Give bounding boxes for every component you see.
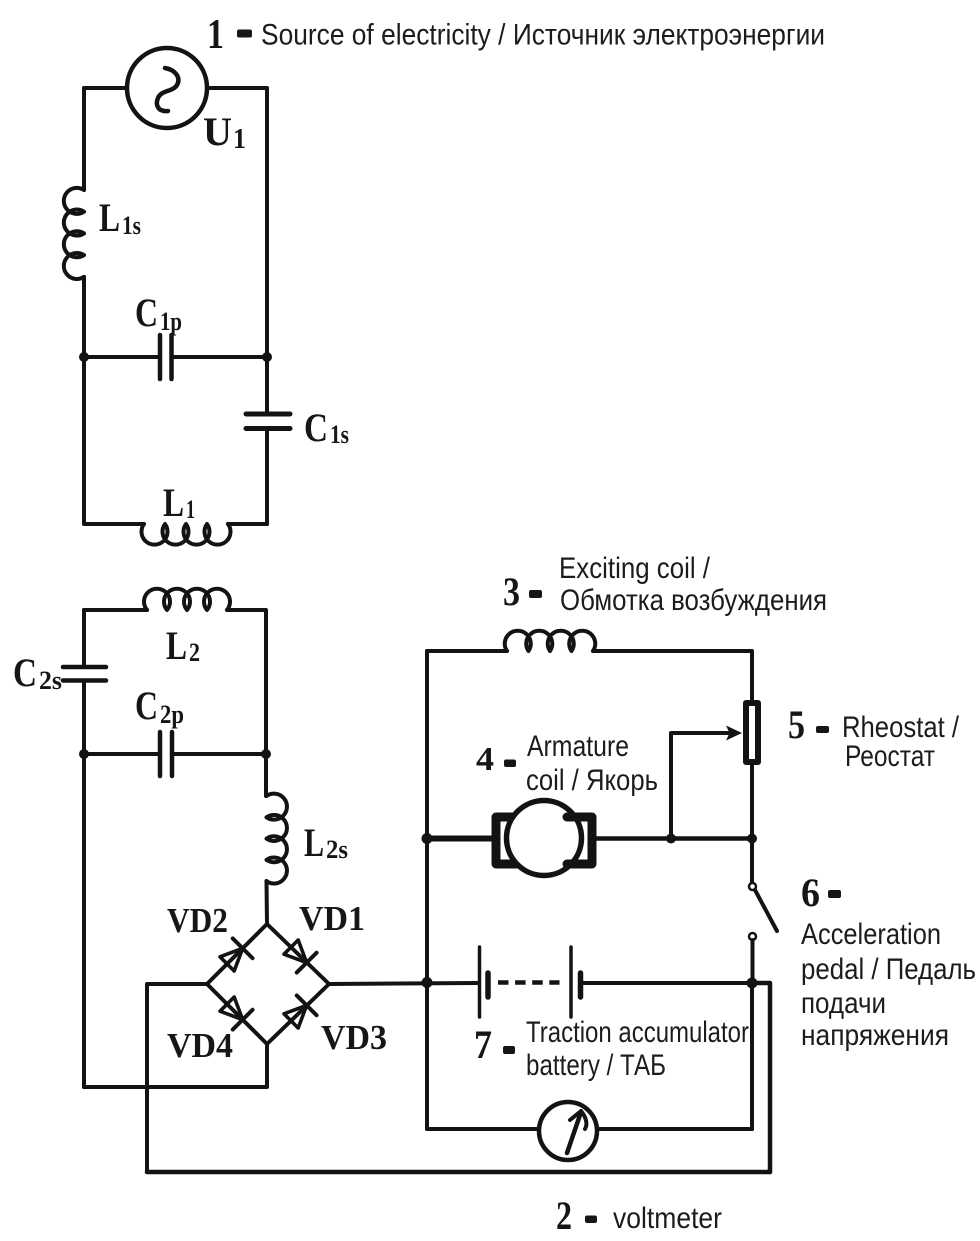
svg-text:1s: 1s <box>122 211 141 240</box>
svg-text:1p: 1p <box>160 307 182 336</box>
inductor L1s <box>64 188 84 279</box>
svg-text:2p: 2p <box>160 700 184 729</box>
label C1s <box>304 405 349 450</box>
svg-text:7: 7 <box>474 1022 492 1067</box>
label VD3 <box>321 1018 387 1057</box>
wire bottom loop1 right <box>228 522 267 526</box>
node wiper tap <box>666 834 676 844</box>
svg-text:C: C <box>304 405 328 450</box>
svg-text:2: 2 <box>556 1193 572 1238</box>
svg-text:coil / Якорь: coil / Якорь <box>526 764 658 797</box>
svg-text:VD4: VD4 <box>167 1026 233 1065</box>
wire left rail top (down to inductor L1s) <box>82 88 86 190</box>
wire right rail from C2p node down to L2s <box>264 754 268 796</box>
svg-text:L: L <box>166 623 187 668</box>
svg-text:1: 1 <box>207 12 224 58</box>
label L2 <box>166 623 200 668</box>
AC source U1 <box>127 48 207 128</box>
node armature left <box>422 833 433 844</box>
diode VD1 <box>281 937 316 972</box>
wire top-right from source to right rail corner <box>207 88 267 412</box>
label VD2 <box>167 901 228 940</box>
wire right-circuit left rail <box>425 651 429 1129</box>
label U1 <box>203 109 246 155</box>
svg-text:подачи: подачи <box>801 987 886 1020</box>
svg-text:L: L <box>163 480 184 525</box>
label 7 - Traction accumulator battery <box>474 1016 749 1082</box>
label 1 - Source of electricity <box>207 12 825 58</box>
label 6 - Acceleration pedal <box>801 870 976 1052</box>
diode VD2 <box>217 938 252 973</box>
node C2p right <box>261 749 271 759</box>
wire right rail down to voltmeter wire <box>750 983 754 1129</box>
svg-text:Traction accumulator: Traction accumulator <box>526 1016 749 1049</box>
switch (6) acceleration pedal <box>749 883 777 983</box>
svg-text:U: U <box>203 109 232 154</box>
svg-text:voltmeter: voltmeter <box>613 1202 722 1235</box>
capacitor C1p <box>84 335 267 379</box>
wire loop2 top-right and right rail down to C2p node <box>227 610 266 754</box>
capacitor C2s <box>63 667 106 681</box>
capacitor C2p <box>84 732 266 776</box>
bridge edge top-left <box>207 924 267 984</box>
svg-text:5: 5 <box>788 702 805 747</box>
svg-text:Source of electricity / Источн: Source of electricity / Источник электро… <box>261 19 825 52</box>
label VD4 <box>167 1026 233 1065</box>
wire from bridge right vertex to battery <box>329 983 477 984</box>
rheostat wiper arrow <box>671 726 742 839</box>
svg-text:pedal / Педаль: pedal / Педаль <box>801 953 976 986</box>
wire right rail to switch <box>750 838 754 883</box>
svg-text:Реостат: Реостат <box>845 740 935 773</box>
svg-text:4: 4 <box>476 741 494 778</box>
svg-text:L: L <box>99 195 120 240</box>
label 4 - Armature coil <box>476 730 658 797</box>
node armature right <box>747 834 757 844</box>
voltmeter (2) <box>427 1102 752 1160</box>
wire top-left from source to left rail <box>84 86 127 90</box>
svg-text:2s: 2s <box>326 835 348 864</box>
wire loop2 top-left <box>84 608 147 612</box>
wire left rail down to bottom of loop1 <box>84 357 144 524</box>
node battery left rail <box>422 977 433 988</box>
svg-text:2s: 2s <box>39 666 62 695</box>
diode VD3 <box>281 995 316 1030</box>
svg-text:L: L <box>304 820 324 865</box>
label C2p <box>135 683 184 729</box>
label L1 <box>163 480 195 525</box>
svg-text:Armature: Armature <box>527 730 629 763</box>
label L1s <box>99 195 141 240</box>
wire stub from battery node to outer right rail <box>752 983 770 1172</box>
right circuit: top wire with exciting coil <box>427 649 507 653</box>
label C1p <box>135 290 182 336</box>
svg-text:1: 1 <box>186 495 195 524</box>
svg-text:C: C <box>135 683 158 728</box>
wire from L2s to bridge top vertex <box>265 881 270 924</box>
label L2s <box>304 820 348 865</box>
svg-text:C: C <box>13 650 37 695</box>
label 2 - voltmeter <box>556 1193 722 1238</box>
node C2p left <box>79 749 89 759</box>
wire right rail rheostat to armature node <box>750 762 754 838</box>
svg-text:1s: 1s <box>330 420 349 449</box>
svg-text:C: C <box>135 290 158 335</box>
svg-text:Acceleration: Acceleration <box>801 918 941 951</box>
node C1p right <box>262 352 272 362</box>
svg-text:2: 2 <box>189 638 200 667</box>
svg-text:6: 6 <box>801 870 820 915</box>
wire left rail below C2s <box>82 683 86 1087</box>
armature (4): wire, brushes and rotor <box>427 801 753 876</box>
node battery right rail <box>747 978 758 989</box>
wire top right to rheostat <box>593 651 752 700</box>
battery (7) ТАБ <box>480 947 753 1017</box>
inductor L2 <box>144 589 230 610</box>
wire left rail loop2 top <box>82 610 86 665</box>
wire bottom long return <box>147 1170 770 1175</box>
svg-text:3: 3 <box>503 569 520 614</box>
svg-text:Exciting coil /: Exciting coil / <box>559 552 711 585</box>
wire left rail between L1s and C1p node <box>82 277 86 357</box>
inductor exciting coil (3) <box>505 631 595 651</box>
capacitor C1s <box>246 414 290 524</box>
svg-text:battery / ТАБ: battery / ТАБ <box>526 1049 666 1082</box>
bridge edge bottom-right <box>267 984 329 1044</box>
svg-text:VD1: VD1 <box>299 899 365 938</box>
wire from bridge bottom vertex down and left <box>84 1044 267 1087</box>
svg-text:Обмотка возбуждения: Обмотка возбуждения <box>560 584 827 617</box>
label VD1 <box>299 899 365 938</box>
svg-text:VD2: VD2 <box>167 901 228 940</box>
svg-text:1: 1 <box>233 124 246 155</box>
inductor L1 <box>142 524 231 545</box>
bridge edge bottom-left <box>207 984 267 1044</box>
svg-text:напряжения: напряжения <box>801 1019 949 1052</box>
wire from bridge left vertex to lower-left corner <box>147 984 207 1172</box>
bridge edge top-right <box>267 924 329 984</box>
node C1p left <box>79 352 89 362</box>
rheostat (5) <box>746 703 758 762</box>
label 3 - Exciting coil <box>503 552 827 617</box>
inductor L2s <box>267 794 287 884</box>
diode VD4 <box>217 994 252 1029</box>
label C2s <box>13 650 62 695</box>
svg-text:VD3: VD3 <box>321 1018 387 1057</box>
label 5 - Rheostat <box>788 702 960 773</box>
